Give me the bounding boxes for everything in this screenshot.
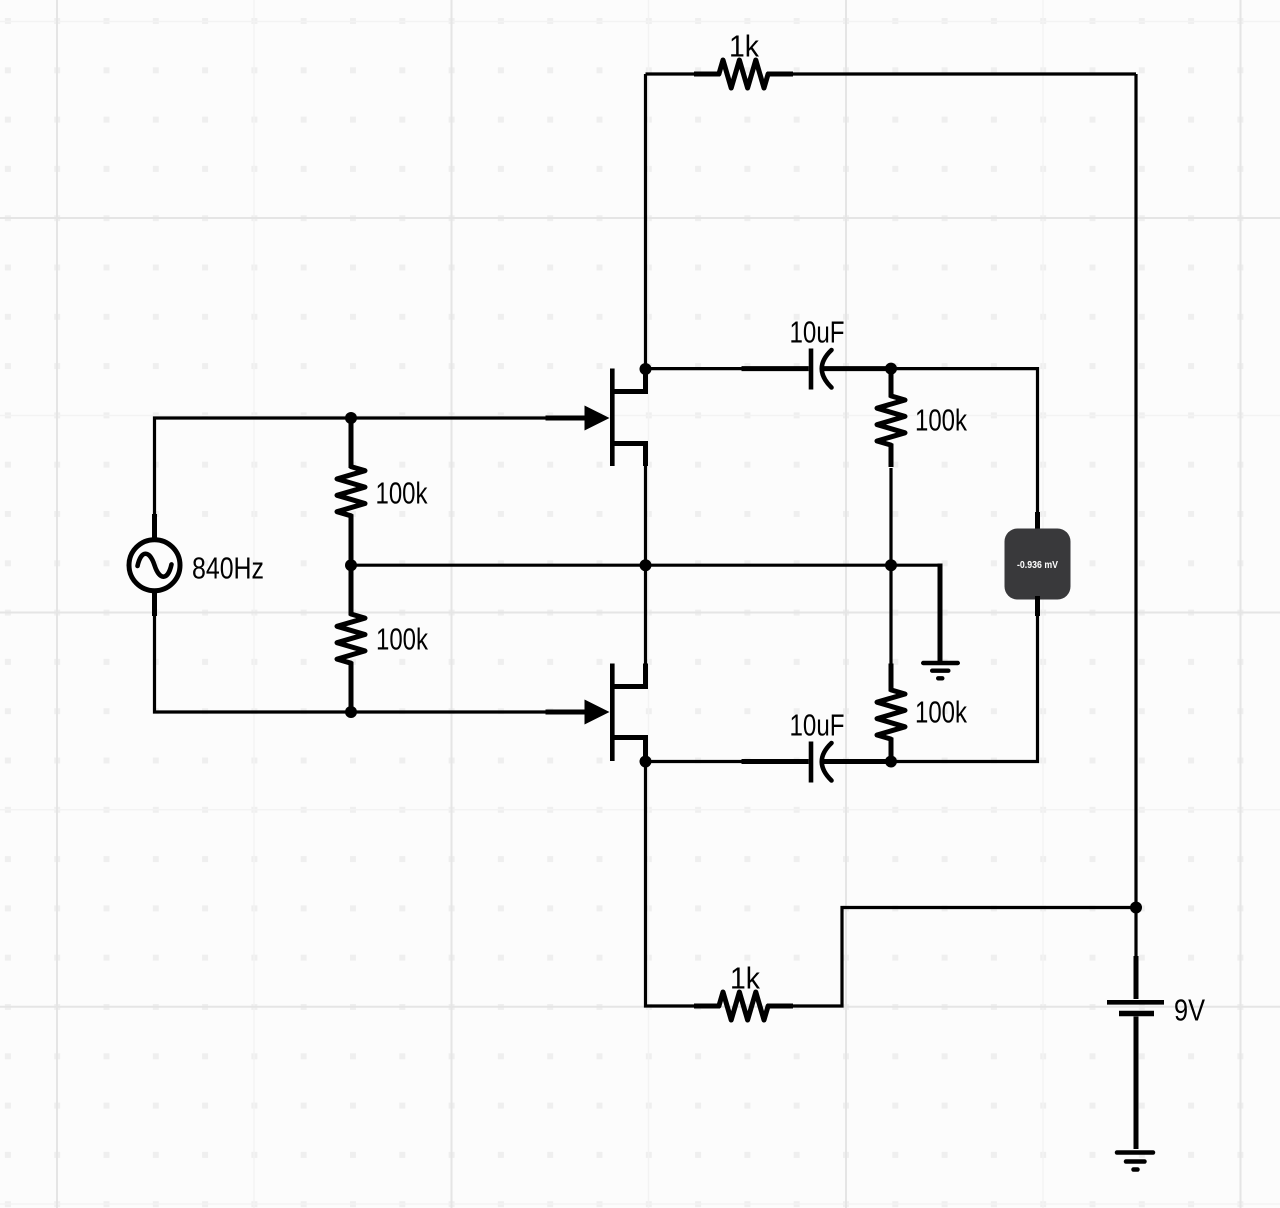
svg-text:100k: 100k xyxy=(376,476,428,511)
junction: C2 right node xyxy=(885,756,897,768)
resistor R6 1k (bottom feedback) xyxy=(694,992,793,1020)
svg-text:840Hz: 840Hz xyxy=(192,550,264,585)
junction: battery top node xyxy=(1130,902,1142,914)
resistor R4 100k (bottom right) xyxy=(877,664,905,762)
wire: top horizontal left of R5 xyxy=(646,72,698,75)
resistor R1 100k (divider top) xyxy=(337,418,365,565)
wire: source top to Q1 gate xyxy=(155,418,547,516)
svg-text:1k: 1k xyxy=(729,28,759,63)
wire: meter to C2 node xyxy=(891,614,1038,762)
wire: Q2 source node to C2 xyxy=(646,760,744,763)
junction: right mid node xyxy=(885,559,897,571)
wire: top-right vertical down to battery node xyxy=(1134,74,1137,908)
junction: Q1 drain node xyxy=(640,363,652,375)
svg-text:100k: 100k xyxy=(376,622,428,657)
junction: mid node at x=645.5 xyxy=(640,559,652,571)
svg-text:10uF: 10uF xyxy=(790,708,845,743)
wire: meter top lead xyxy=(1035,512,1040,532)
svg-text:100k: 100k xyxy=(915,403,967,438)
wire: Q2 drain up to mid wire xyxy=(644,565,647,663)
wire: R6 right to battery node xyxy=(793,908,1136,1007)
capacitor C1 10uF (top) xyxy=(742,349,892,390)
wire: bottom loop left vertical and to R6 xyxy=(646,762,698,1007)
voltage source V1 xyxy=(129,514,180,616)
resistor R2 100k (divider bottom) xyxy=(337,565,365,712)
resistor R5 1k (top feedback) xyxy=(694,60,793,88)
wire: mid node to ground stub xyxy=(891,564,940,567)
svg-text:100k: 100k xyxy=(915,695,967,730)
wire: source bottom to Q2 gate xyxy=(155,615,547,713)
svg-text:1k: 1k xyxy=(730,961,760,996)
wire: Q1 drain node to C1 xyxy=(646,367,744,370)
ground G2 (battery) xyxy=(1117,1153,1153,1170)
transistor Q2 (bottom) xyxy=(546,664,646,762)
wire: right column top (C1 node to meter) xyxy=(891,369,1038,514)
wire: top-left vertical from Q1 drain node up to feedback loop xyxy=(644,74,647,369)
junction: Q2 source node xyxy=(640,756,652,768)
wire: R3 bottom to mid node xyxy=(889,468,892,565)
junction: divider top xyxy=(345,412,357,424)
meter M1 voltage display xyxy=(1005,529,1071,600)
svg-text:10uF: 10uF xyxy=(790,315,845,350)
capacitor C2 10uF (bottom) xyxy=(742,742,892,783)
junction: divider mid xyxy=(345,559,357,571)
wire: right mid node down to R4 xyxy=(889,565,892,665)
battery V2 9V xyxy=(1107,908,1164,1150)
wire: top horizontal right of R5 xyxy=(793,72,1136,75)
junction: divider bottom xyxy=(345,706,357,718)
resistor R3 100k (top right) xyxy=(877,369,905,467)
junction: C1 right node xyxy=(885,363,897,375)
wire: mid horizontal (divider mid to right column) xyxy=(351,564,891,567)
transistor Q1 (top) xyxy=(546,369,646,467)
wire: Q1 source down to mid wire xyxy=(644,466,647,565)
svg-text:-0.936 mV: -0.936 mV xyxy=(1017,560,1058,571)
svg-text:9V: 9V xyxy=(1174,993,1205,1028)
wire: meter bottom lead xyxy=(1035,596,1040,616)
wire: ground stub vertical xyxy=(938,564,943,662)
ground G1 xyxy=(923,663,958,678)
